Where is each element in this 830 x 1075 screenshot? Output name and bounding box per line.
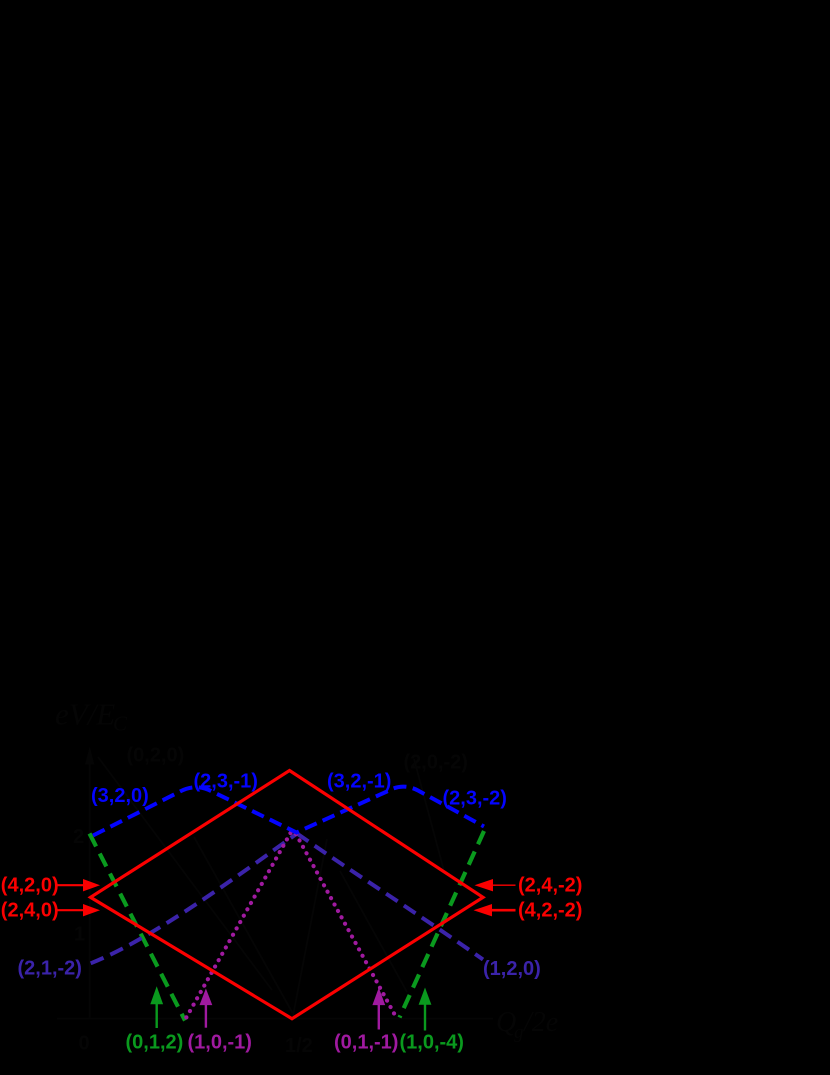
purple dotted line left: [186, 833, 291, 1018]
svg-text:1/2: 1/2: [285, 1035, 313, 1057]
svg-text:(0,1,-1): (0,1,-1): [334, 1032, 398, 1054]
green dashed line left: [90, 834, 186, 1021]
blue dashed anticrossing curve (W shape): [93, 787, 484, 836]
svg-text:(0,1,2): (0,1,2): [126, 1032, 184, 1054]
y-axis (faint black): [85, 747, 94, 1019]
svg-text:eV/E: eV/E: [55, 697, 115, 732]
faint pointer line right: [414, 759, 444, 869]
green arrow up bottom-right: [419, 988, 432, 1031]
svg-text:/2e: /2e: [522, 1007, 558, 1038]
green dashed line right: [400, 831, 485, 1018]
svg-text:(2,0,-2): (2,0,-2): [404, 752, 468, 774]
svg-text:(3,2,-1): (3,2,-1): [327, 771, 391, 793]
svg-text:(1,0,-1): (1,0,-1): [188, 1032, 252, 1054]
svg-text:(4,2,-2): (4,2,-2): [518, 900, 582, 922]
navy dashed curve right (1,2,0): [297, 834, 483, 960]
red arrow right upper: [475, 879, 516, 891]
purple arrow up bottom-left: [200, 989, 213, 1028]
svg-text:(2,3,-1): (2,3,-1): [194, 771, 258, 793]
svg-text:(3,2,0): (3,2,0): [91, 785, 149, 807]
svg-text:(2,4,0): (2,4,0): [1, 900, 59, 922]
purple arrow up bottom-right: [372, 988, 385, 1030]
svg-text:(4,2,0): (4,2,0): [1, 875, 59, 897]
svg-text:2: 2: [73, 826, 84, 848]
red rhombus: [91, 771, 484, 1019]
svg-text:(1,0,-4): (1,0,-4): [400, 1032, 464, 1054]
faint black line to bottom vertex right: [293, 839, 327, 1016]
svg-text:(2,4,-2): (2,4,-2): [518, 875, 582, 897]
x-axis (faint black): [57, 1018, 493, 1020]
faint black line to bottom vertex left: [194, 837, 293, 1013]
svg-text:1: 1: [74, 924, 85, 946]
purple dotted line right: [296, 834, 396, 1017]
navy dashed curve left (2,1,-2): [91, 834, 297, 964]
svg-text:(2,1,-2): (2,1,-2): [18, 958, 82, 980]
svg-text:(0,2,0): (0,2,0): [127, 745, 185, 767]
red arrow right lower: [474, 904, 516, 916]
red arrow left lower: [58, 904, 101, 916]
faint pointer line left: [98, 757, 272, 990]
svg-text:C: C: [113, 712, 128, 736]
faint black segment lower-right: [340, 871, 407, 992]
svg-text:(1,2,0): (1,2,0): [483, 958, 541, 980]
green arrow up bottom-left: [150, 986, 163, 1028]
svg-text:(2,3,-2): (2,3,-2): [443, 788, 507, 810]
svg-text:g: g: [514, 1022, 524, 1043]
red arrow left upper: [58, 879, 101, 891]
svg-text:0: 0: [79, 1033, 90, 1055]
